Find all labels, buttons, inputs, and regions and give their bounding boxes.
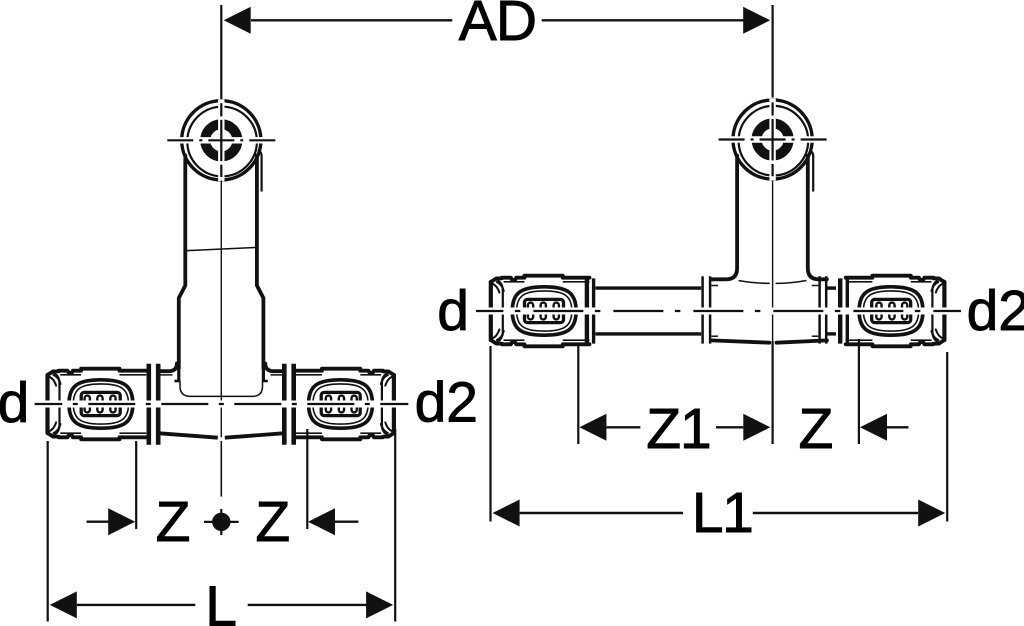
- body end ring left: [701, 276, 704, 343]
- centerline left view: [35, 401, 409, 408]
- socket rim notch right view: [810, 151, 813, 191]
- centerline right view: [476, 308, 961, 315]
- collar rings F1: [147, 364, 152, 445]
- body top sag line: [739, 281, 769, 284]
- press fitting F3: [491, 276, 590, 347]
- collar rings F3: [585, 278, 589, 343]
- pipe insertion depth line: [185, 247, 259, 251]
- tee interior fillet U-line: [180, 381, 263, 396]
- body end ring right: [818, 276, 821, 343]
- connecting pipe stub body-F4: [827, 286, 836, 289]
- wall feet: [174, 380, 180, 383]
- dimension AD: [251, 19, 452, 21]
- socket bore lines under shoulders: [161, 374, 173, 376]
- svg-text:d: d: [0, 371, 29, 435]
- svg-text:Z: Z: [255, 490, 290, 554]
- collar rings F4: [838, 278, 842, 343]
- press fitting F4: [846, 276, 945, 347]
- vertical outlet pipe circle, right view: [733, 100, 812, 179]
- press fitting F2: [295, 369, 394, 440]
- vertical outlet pipe circle, left view: [182, 101, 261, 180]
- press fitting F1: [48, 369, 147, 440]
- dimension L left view: [47, 441, 49, 622]
- svg-text:AD: AD: [459, 0, 536, 53]
- dimension Z1 / Z right view: [577, 346, 579, 444]
- AD extension line right: [771, 5, 773, 98]
- svg-text:L1: L1: [692, 481, 752, 545]
- vertical tube walls left view: [179, 156, 186, 369]
- dimension L1 right view: [489, 346, 491, 522]
- connecting pipe F3-body: [596, 286, 702, 289]
- dimension Z Z left view: [135, 441, 137, 529]
- vertical tube right view: [712, 156, 737, 280]
- svg-text:Z1: Z1: [646, 397, 711, 461]
- svg-text:L: L: [205, 575, 237, 626]
- collar rings F2: [282, 364, 287, 445]
- AD extension line left: [220, 5, 222, 100]
- tube centerline thin: [220, 181, 222, 438]
- svg-text:d: d: [437, 279, 469, 343]
- socket depth ticks: [712, 285, 719, 287]
- socket rim notch: [259, 151, 262, 191]
- tee shoulder top edges: [159, 364, 177, 372]
- svg-text:d2: d2: [415, 371, 478, 435]
- svg-text:d2: d2: [967, 279, 1024, 343]
- tee bottom edge: [158, 433, 218, 438]
- svg-text:Z: Z: [799, 397, 834, 461]
- svg-text:Z: Z: [156, 490, 191, 554]
- body bottom edge right view: [712, 340, 770, 342]
- tube centerline thin right view: [772, 181, 774, 342]
